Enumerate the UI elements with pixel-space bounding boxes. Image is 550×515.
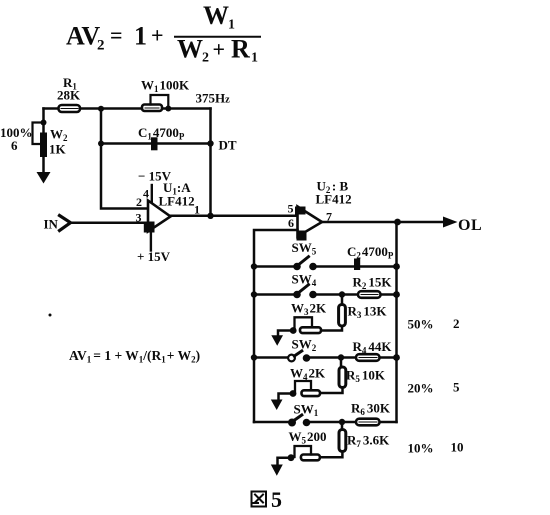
op-amp U1 — [148, 201, 171, 232]
svg-text:W32K: W32K — [291, 301, 327, 318]
label 375Hz — [196, 91, 231, 106]
node W3 left — [290, 327, 297, 334]
label 5 — [453, 380, 460, 395]
svg-text:R313K: R313K — [348, 304, 388, 321]
wire W3 to ground — [278, 331, 293, 337]
svg-text:2: 2 — [97, 38, 105, 54]
svg-text:2: 2 — [202, 51, 209, 66]
switch SW4 — [292, 272, 317, 289]
node W1 wiper junction — [165, 106, 171, 112]
stray dot — [49, 314, 52, 317]
node R1-C1 junction — [98, 106, 104, 112]
node U1 output — [207, 213, 213, 219]
label 50% — [408, 317, 434, 332]
svg-text:+: + — [151, 23, 164, 48]
svg-text:6: 6 — [11, 138, 18, 153]
label -15V — [138, 169, 172, 184]
svg-text:10%: 10% — [408, 441, 434, 456]
resistor R7 — [339, 430, 346, 452]
label 10 — [451, 440, 464, 455]
fraction bar — [175, 36, 260, 38]
node W4 left — [290, 390, 297, 397]
svg-text:W1100K: W1100K — [141, 78, 190, 95]
svg-text:LF412: LF412 — [316, 192, 352, 207]
node SW5 right bus — [393, 263, 400, 270]
svg-text:=: = — [110, 23, 123, 48]
wire top horizontal — [44, 107, 211, 110]
wire U2 output to OL — [322, 221, 444, 224]
svg-text:C14700P: C14700P — [138, 125, 185, 142]
ground below W5 — [271, 465, 283, 476]
potentiometer W2 — [40, 133, 47, 158]
wire R3 branch — [321, 295, 342, 331]
svg-text:C24700P: C24700P — [347, 244, 394, 261]
node R6/R7 junction — [339, 419, 345, 425]
formula AV2 = 1 + W1/(W2+R1) — [66, 1, 258, 66]
svg-text:28K: 28K — [57, 88, 81, 103]
wire W5 to ground — [278, 458, 292, 465]
wire C1 row — [101, 142, 211, 145]
svg-text:+: + — [213, 37, 226, 62]
output OL arrow — [443, 217, 458, 228]
op-amp U2 — [298, 207, 323, 237]
wire left vertical to W2 — [42, 109, 45, 134]
svg-text:1K: 1K — [49, 142, 67, 157]
node C1 left — [98, 141, 104, 147]
resistor R6 — [356, 419, 380, 426]
svg-text:+ 15V: + 15V — [137, 249, 171, 264]
node SW5 left bus — [251, 263, 257, 269]
ground below W2 — [42, 157, 45, 173]
input IN arrow — [60, 216, 71, 231]
svg-text:R444K: R444K — [353, 339, 393, 356]
potentiometer W3 — [300, 327, 321, 333]
pin 4 — [143, 187, 149, 201]
svg-text:1: 1 — [134, 22, 147, 51]
wire W4 to ground — [279, 394, 294, 401]
wire SW1 row — [310, 421, 397, 424]
pin 5 — [288, 202, 294, 216]
label 10% — [408, 441, 434, 456]
pin 2 — [136, 195, 142, 209]
svg-text:R630K: R630K — [351, 401, 391, 418]
svg-text:5: 5 — [453, 380, 460, 395]
wire U2 pin6 feedback — [254, 230, 298, 422]
wire right vertical (375Hz node to output) — [209, 109, 212, 216]
resistor R1 — [59, 105, 81, 112]
wire U1 output to U2 pin5 — [171, 215, 298, 218]
caption figure 5 — [252, 492, 267, 507]
resistor R3 — [339, 305, 346, 327]
svg-text:5: 5 — [271, 487, 282, 512]
switch SW5 — [292, 240, 317, 257]
svg-text:IN: IN — [44, 217, 59, 232]
svg-text:50%: 50% — [408, 317, 434, 332]
wire IN to pin3 — [71, 221, 149, 224]
wire pin4 supply — [151, 185, 153, 202]
svg-text:1: 1 — [251, 51, 258, 66]
node R4/R5 junction — [338, 354, 344, 360]
svg-text:1: 1 — [194, 203, 200, 217]
switch SW1 — [294, 402, 319, 419]
capacitor C2 — [354, 259, 360, 271]
svg-text:4: 4 — [143, 187, 149, 201]
svg-text:5: 5 — [288, 202, 294, 216]
svg-text:R215K: R215K — [353, 275, 393, 292]
svg-text:10: 10 — [451, 440, 464, 455]
formula AV1 = 1 + W1/(R1+W2) — [69, 348, 200, 365]
wire +15V supply — [150, 232, 152, 251]
ground below W3 — [271, 335, 283, 346]
pin 1 — [194, 203, 200, 217]
wire R7 branch — [320, 422, 342, 457]
label 20% — [408, 381, 434, 396]
wire SW4 row — [317, 293, 397, 296]
resistor R2 — [358, 291, 381, 298]
resistor R5 — [339, 367, 346, 388]
svg-text:W: W — [177, 35, 203, 64]
svg-text:1: 1 — [228, 18, 235, 33]
ground below W4 — [271, 400, 283, 411]
capacitor C1 — [151, 137, 158, 150]
svg-text:2: 2 — [453, 316, 460, 331]
svg-text:R: R — [231, 35, 250, 64]
node R2/R3 junction — [339, 291, 345, 297]
svg-text:2: 2 — [136, 195, 142, 209]
svg-text:W: W — [203, 1, 229, 30]
pin 6 — [288, 216, 294, 230]
wire R5 branch — [320, 358, 343, 394]
potentiometer W1 — [142, 105, 162, 112]
pin 7 — [326, 210, 332, 224]
wire SW5 row — [317, 265, 397, 268]
switch SW2 — [292, 337, 317, 354]
svg-text:6: 6 — [288, 216, 294, 230]
node DT — [207, 140, 213, 146]
wire right bus vertical — [395, 222, 398, 422]
label 2 — [453, 316, 460, 331]
svg-text:OL: OL — [458, 217, 482, 234]
potentiometer W4 — [302, 390, 321, 396]
node W5 left — [288, 454, 295, 461]
wire left vertical to pin2 — [101, 109, 148, 209]
svg-text:R510K: R510K — [346, 368, 386, 385]
wire SW2 row — [310, 356, 397, 359]
svg-text:LF412: LF412 — [159, 194, 195, 209]
pin 3 — [136, 211, 142, 225]
svg-text:W42K: W42K — [290, 366, 326, 383]
svg-text:R73.6K: R73.6K — [347, 433, 390, 450]
potentiometer W5 — [301, 455, 320, 461]
resistor R4 — [356, 354, 380, 361]
svg-text:W5200: W5200 — [289, 429, 327, 446]
svg-text:AV: AV — [66, 22, 100, 51]
svg-text:DT: DT — [219, 138, 237, 153]
svg-text:375Hz: 375Hz — [196, 91, 231, 106]
svg-text:20%: 20% — [408, 381, 434, 396]
node output bus top — [394, 219, 401, 226]
